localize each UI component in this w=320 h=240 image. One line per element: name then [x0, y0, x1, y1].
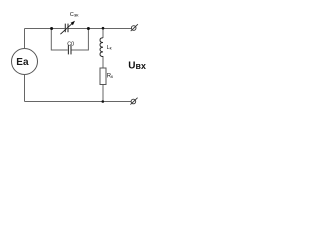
svg-text:Ea: Ea [16, 57, 29, 68]
svg-text:Rк: Rк [107, 74, 114, 80]
svg-text:Cэк: Cэк [70, 12, 79, 18]
svg-text:Lк: Lк [107, 45, 112, 51]
svg-text:C0: C0 [67, 41, 74, 47]
svg-text:Uвх: Uвх [128, 61, 146, 72]
